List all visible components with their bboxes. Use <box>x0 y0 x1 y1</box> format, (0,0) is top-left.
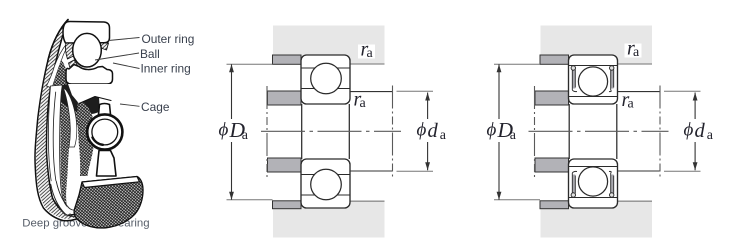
axis centerline <box>529 130 669 132</box>
phantom line left <box>266 86 268 177</box>
raceway lines bottom <box>301 174 350 176</box>
ball <box>73 33 102 67</box>
label phi Da (panel 3) <box>485 120 516 143</box>
ball bottom <box>578 167 607 196</box>
raceway white strip upper <box>47 44 69 88</box>
shaft shoulder line right bottom <box>618 170 661 172</box>
ring side face sliver <box>35 62 87 220</box>
shaft shoulder bottom <box>268 158 302 172</box>
housing shoulder bottom <box>540 201 569 209</box>
groove wedge under ball <box>69 60 79 68</box>
ball in cage <box>92 119 118 145</box>
da extension bottom <box>664 170 701 172</box>
svg-text:d: d <box>695 120 706 142</box>
label phi da (panel 2) <box>415 120 446 143</box>
outer ring band (hatched) <box>35 20 89 221</box>
da extension top <box>397 90 434 92</box>
raceway arc <box>53 92 70 214</box>
shaft shoulder line right top <box>618 91 661 93</box>
leader to Outer ring <box>109 38 140 41</box>
svg-text:d: d <box>428 120 439 142</box>
leader to Ball <box>95 53 139 60</box>
phantom line left <box>534 86 536 177</box>
bearing cross-section bottom <box>569 159 618 208</box>
dimension line Da <box>231 64 233 119</box>
svg-text:ϕ: ϕ <box>219 120 229 141</box>
svg-text:a: a <box>360 96 367 111</box>
inner ring cut face <box>66 65 113 85</box>
svg-text:Cage: Cage <box>141 100 170 114</box>
Da extension bottom <box>494 199 540 201</box>
shaft shoulder line right top <box>350 91 393 93</box>
bearing side faces <box>301 104 303 159</box>
leader to Cage <box>120 104 140 106</box>
Da extension top <box>494 63 540 65</box>
housing block top <box>541 26 653 65</box>
dimension line da <box>427 93 429 120</box>
housing block bottom <box>541 201 653 238</box>
outer ring bottom segment (outer surface) <box>74 177 143 228</box>
label phi da (panel 3) <box>682 120 713 143</box>
outer ring cut face <box>63 22 110 44</box>
da extension top <box>664 90 701 92</box>
housing shoulder bottom <box>273 201 302 209</box>
svg-text:a: a <box>367 46 374 61</box>
svg-text:Ball: Ball <box>140 47 160 61</box>
raceway groove wedge <box>52 60 68 88</box>
silhouette line <box>35 20 89 221</box>
bore white window <box>64 88 77 147</box>
shield <box>609 171 614 197</box>
cage pocket ring <box>87 114 122 149</box>
cage back shading <box>78 98 95 176</box>
Da extension top <box>227 63 273 65</box>
bearing cross-section top <box>301 55 350 104</box>
phantom line right <box>392 86 394 179</box>
svg-text:ϕ: ϕ <box>487 120 497 141</box>
svg-text:a: a <box>707 128 714 143</box>
dimension line Da <box>498 64 500 119</box>
svg-text:a: a <box>628 97 635 112</box>
housing shoulder top <box>540 55 569 64</box>
shaft shoulder bottom <box>535 158 569 172</box>
svg-text:Outer ring: Outer ring <box>142 32 195 46</box>
cut face of bottom segment <box>82 177 140 188</box>
raceway lines top <box>301 67 350 69</box>
ball bottom <box>311 169 342 200</box>
dimension line da <box>694 93 696 120</box>
shield <box>609 66 614 92</box>
label phi Da (panel 2) <box>217 120 248 143</box>
ball top <box>578 67 607 96</box>
V edge lines <box>56 182 80 211</box>
label ra housing (panel 3) <box>625 44 642 58</box>
section face below inner ring <box>68 84 112 104</box>
bearing cross-section bottom <box>301 159 350 208</box>
ring lines bottom <box>569 166 618 168</box>
bore shadow deep <box>47 84 99 114</box>
svg-text:a: a <box>242 128 249 143</box>
white V band bottom (right arm) <box>67 192 83 212</box>
svg-text:Inner ring: Inner ring <box>141 62 191 76</box>
axis centerline <box>261 130 401 132</box>
shaft shoulder top <box>535 91 569 105</box>
shaft shoulder line right bottom <box>350 170 393 172</box>
cage stem bottom <box>97 151 117 177</box>
shield <box>571 171 577 197</box>
housing block top <box>273 26 385 65</box>
housing block bottom <box>273 201 385 238</box>
svg-text:a: a <box>440 128 447 143</box>
bearing cross-section top <box>569 55 618 104</box>
ball top <box>311 63 342 94</box>
shield <box>571 66 577 92</box>
ring lines top <box>569 65 618 67</box>
shaft shoulder top <box>268 91 302 105</box>
white V band bottom (left arm) <box>54 183 68 212</box>
bearing side faces <box>568 104 570 159</box>
svg-text:a: a <box>633 45 640 60</box>
bore white band <box>48 85 69 216</box>
svg-text:ϕ: ϕ <box>684 120 694 141</box>
phantom line right <box>659 86 661 179</box>
leader to Inner ring <box>113 63 140 69</box>
svg-text:a: a <box>510 128 517 143</box>
label ra housing (panel 2) <box>358 45 375 59</box>
raceway shading beside ball <box>66 43 78 59</box>
housing shoulder top <box>273 55 302 64</box>
bore shadow <box>48 84 98 211</box>
cage stem top <box>99 104 111 115</box>
svg-text:ϕ: ϕ <box>417 120 427 141</box>
Da extension bottom <box>227 199 273 201</box>
da extension bottom <box>397 170 434 172</box>
